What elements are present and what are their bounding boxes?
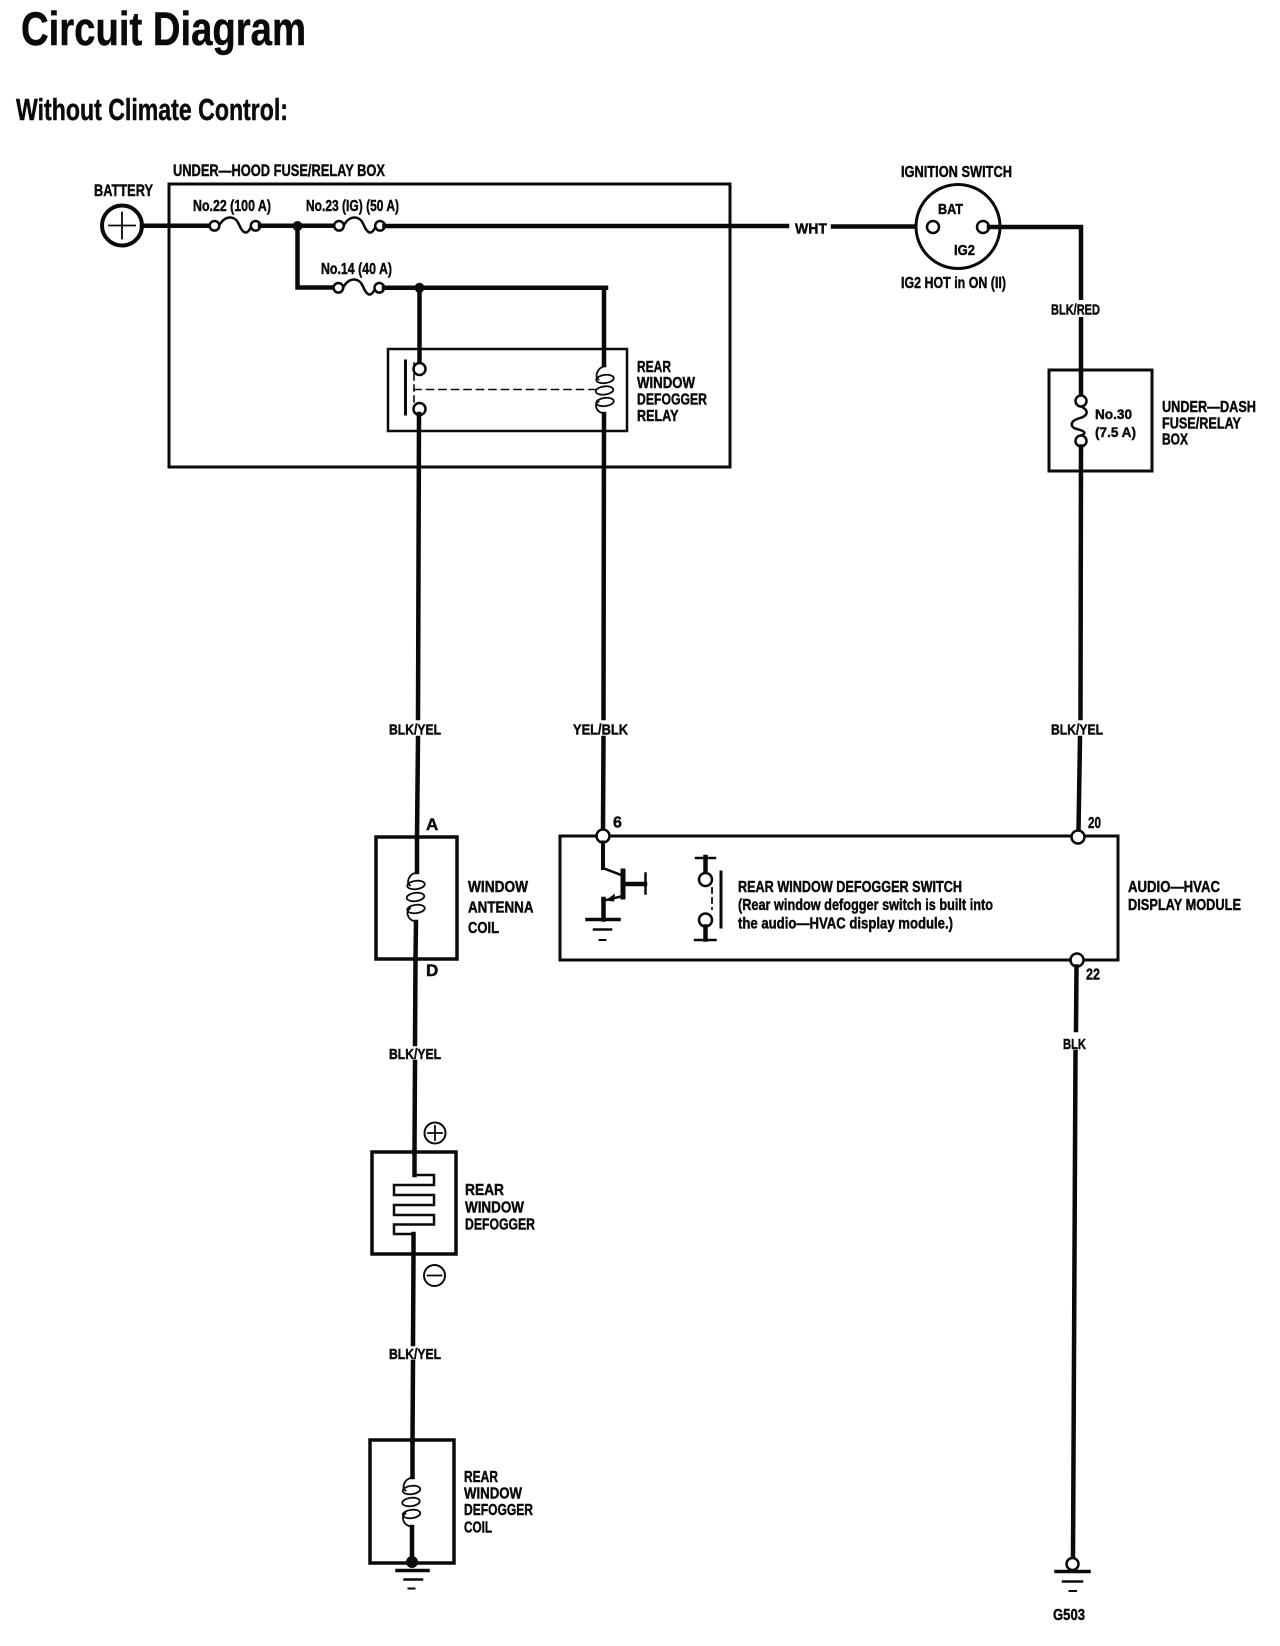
wire corner down to relay coil — [602, 288, 607, 365]
svg-text:A: A — [426, 815, 438, 834]
plus terminal mark — [425, 1123, 446, 1144]
wire relay coil down — [601, 414, 606, 718]
junction node on bus — [293, 221, 303, 231]
relay coil L1 — [595, 366, 614, 414]
label UNDER-DASH FUSE/RELAY BOX — [1162, 399, 1256, 449]
defogger heater element — [394, 1175, 434, 1234]
fuse No.30 — [1072, 396, 1087, 447]
svg-text:COIL: COIL — [464, 1520, 492, 1537]
svg-text:DEFOGGER: DEFOGGER — [465, 1217, 535, 1234]
battery B1 — [102, 206, 142, 246]
svg-text:WINDOW: WINDOW — [468, 879, 528, 896]
pin 22 — [1071, 954, 1084, 967]
wire pin22 down to ground — [1074, 967, 1079, 1031]
svg-text:BLK/YEL: BLK/YEL — [389, 1346, 441, 1363]
label REAR WINDOW DEFOGGER SWITCH text — [738, 879, 993, 933]
ground inside module — [587, 920, 619, 941]
wire coil to ground junction — [410, 1527, 415, 1563]
transistor Q1 — [603, 843, 646, 920]
fuse No.14 (40 A) — [334, 280, 385, 295]
svg-text:BLK: BLK — [1063, 1036, 1086, 1053]
svg-text:G503: G503 — [1053, 1607, 1085, 1624]
svg-text:WINDOW: WINDOW — [465, 1200, 524, 1217]
wire bus fuse23 to WHT gap — [385, 224, 788, 229]
wire fuse30 down to pin 20 — [1078, 447, 1083, 719]
svg-text:No.30: No.30 — [1095, 406, 1132, 422]
svg-text:IG2 HOT in ON (II): IG2 HOT in ON (II) — [901, 275, 1006, 292]
wire battery to fuse box — [142, 223, 211, 228]
label REAR WINDOW DEFOGGER — [465, 1182, 535, 1234]
pin 20 — [1072, 831, 1085, 844]
svg-text:YEL/BLK: YEL/BLK — [573, 722, 628, 739]
svg-text:D: D — [426, 961, 438, 980]
minus terminal mark — [424, 1265, 445, 1286]
svg-text:REAR: REAR — [465, 1182, 504, 1199]
window antenna coil box — [376, 837, 457, 959]
svg-text:Without Climate Control:: Without Climate Control: — [16, 93, 288, 127]
wire into antenna coil — [415, 838, 420, 872]
svg-text:ANTENNA: ANTENNA — [468, 900, 534, 917]
svg-text:FUSE/RELAY: FUSE/RELAY — [1162, 416, 1242, 433]
svg-text:(Rear window defogger switch i: (Rear window defogger switch is built in… — [738, 897, 993, 914]
svg-text:(7.5 A): (7.5 A) — [1095, 424, 1136, 440]
audio-hvac display module box — [560, 836, 1118, 960]
svg-text:REAR: REAR — [464, 1469, 498, 1486]
svg-text:BLK/YEL: BLK/YEL — [389, 722, 441, 739]
wire junction down to relay contact — [417, 288, 422, 364]
svg-text:BLK/YEL: BLK/YEL — [1051, 722, 1103, 739]
svg-text:BATTERY: BATTERY — [94, 181, 153, 200]
under-hood fuse/relay box — [169, 184, 730, 467]
under-dash fuse/relay box — [1049, 370, 1152, 471]
antenna coil L2 — [406, 873, 425, 922]
pin 6 — [597, 830, 610, 843]
svg-text:the audio—HVAC display module.: the audio—HVAC display module.) — [738, 916, 953, 933]
fuse No.22 (100 A) — [210, 218, 261, 233]
defogger coil L3 — [402, 1478, 421, 1527]
svg-text:DEFOGGER: DEFOGGER — [637, 392, 707, 409]
svg-text:AUDIO—HVAC: AUDIO—HVAC — [1128, 879, 1220, 896]
junction dot on box bottom — [406, 1556, 418, 1568]
svg-text:BLK/RED: BLK/RED — [1051, 302, 1100, 319]
ground under coil box — [397, 1571, 428, 1589]
svg-text:22: 22 — [1086, 967, 1100, 984]
relay box: rear window defogger relay — [388, 349, 627, 431]
wire into defogger coil — [410, 1441, 415, 1477]
relay contact bottom — [414, 403, 426, 415]
wire WHT to ignition switch — [833, 224, 928, 229]
svg-text:UNDER—DASH: UNDER—DASH — [1162, 399, 1256, 416]
label REAR WINDOW DEFOGGER RELAY — [637, 359, 707, 425]
wire antenna coil down to defogger — [413, 959, 418, 1044]
svg-text:WHT: WHT — [795, 221, 827, 238]
wire into defogger element — [412, 1152, 417, 1175]
wire into fuse30 — [1079, 370, 1084, 396]
relay armature bar — [404, 361, 407, 414]
svg-text:RELAY: RELAY — [637, 408, 679, 425]
svg-text:No.22 (100 A): No.22 (100 A) — [193, 198, 271, 215]
svg-text:BLK/YEL: BLK/YEL — [389, 1046, 441, 1063]
fuse No.23 (IG)(50 A) — [334, 218, 385, 233]
svg-text:IG2: IG2 — [954, 242, 975, 259]
wire fuse22 to fuse23 — [260, 224, 335, 229]
svg-text:No.14 (40 A): No.14 (40 A) — [321, 261, 392, 278]
svg-text:BAT: BAT — [938, 201, 963, 218]
svg-text:IGNITION SWITCH: IGNITION SWITCH — [901, 164, 1012, 181]
svg-text:WINDOW: WINDOW — [464, 1486, 522, 1503]
svg-text:DISPLAY MODULE: DISPLAY MODULE — [1128, 897, 1241, 914]
wire defogger down to coil — [411, 1254, 416, 1344]
relay dashed link — [414, 389, 597, 391]
ignition switch SW1 — [916, 185, 1000, 269]
relay contact top — [414, 363, 426, 375]
svg-text:WINDOW: WINDOW — [637, 375, 696, 392]
label WINDOW ANTENNA COIL — [468, 879, 534, 937]
defogger switch contacts — [695, 857, 721, 940]
junction node above relay — [415, 283, 425, 293]
wire relay contact down to antenna coil — [418, 414, 419, 718]
svg-text:UNDER—HOOD FUSE/RELAY BOX: UNDER—HOOD FUSE/RELAY BOX — [173, 161, 385, 180]
wire fuse14 to corner — [384, 286, 606, 291]
label AUDIO-HVAC DISPLAY MODULE — [1128, 879, 1241, 914]
svg-text:REAR WINDOW DEFOGGER SWITCH: REAR WINDOW DEFOGGER SWITCH — [738, 879, 962, 896]
ground G503 — [1056, 1558, 1089, 1591]
svg-text:6: 6 — [613, 815, 622, 832]
svg-text:BOX: BOX — [1162, 432, 1189, 449]
rear window defogger coil box — [370, 1440, 454, 1563]
wire out of antenna coil — [413, 922, 418, 959]
label No.30 (7.5 A) — [1095, 406, 1136, 440]
rear window defogger box — [372, 1152, 456, 1254]
svg-text:DEFOGGER: DEFOGGER — [464, 1502, 533, 1519]
svg-text:COIL: COIL — [468, 920, 499, 937]
svg-text:REAR: REAR — [637, 359, 671, 376]
svg-text:No.23 (IG) (50 A): No.23 (IG) (50 A) — [306, 198, 399, 215]
wire ignition IG2 to under-dash corner — [989, 227, 1081, 370]
wire out of defogger element — [411, 1234, 416, 1254]
relay dashed armature linkage — [413, 363, 415, 408]
wire junction down to No.14 row — [298, 226, 335, 288]
label REAR WINDOW DEFOGGER COIL — [464, 1469, 533, 1537]
label BLK/RED — [1048, 300, 1103, 317]
svg-text:20: 20 — [1088, 815, 1101, 832]
svg-text:Circuit Diagram: Circuit Diagram — [21, 2, 306, 55]
